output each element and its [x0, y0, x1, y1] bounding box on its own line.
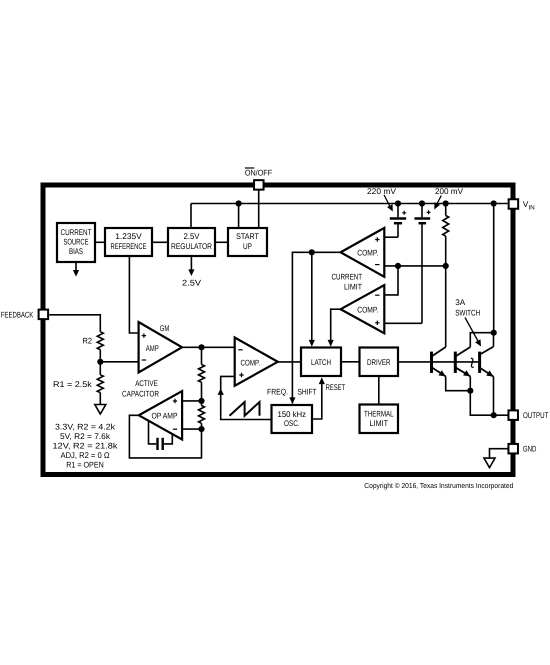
svg-text:LATCH: LATCH	[311, 358, 331, 367]
svg-text:200 mV: 200 mV	[435, 187, 464, 196]
wire switch collector feed	[493, 204, 495, 333]
wire divider to GM amp - input	[100, 361, 138, 363]
svg-text:3A: 3A	[455, 298, 466, 307]
svg-text:GND: GND	[523, 445, 537, 454]
annotation arrow 200 mV	[437, 196, 442, 205]
node junction U3 output/latch drop	[309, 249, 315, 255]
wire GND pin to ground	[490, 449, 508, 458]
svg-text:FREQ.: FREQ.	[267, 388, 288, 397]
svg-text:OP AMP: OP AMP	[152, 411, 178, 420]
block 1.235V REFERENCE	[105, 228, 152, 256]
block DRIVER	[360, 348, 399, 377]
annotation squiggle	[471, 358, 474, 367]
ground below R1	[95, 405, 106, 415]
pin V_IN	[509, 199, 519, 209]
wire op-amp + input	[182, 400, 201, 402]
svg-text:R2: R2	[83, 336, 93, 345]
node junction RB/op-amp - /feedback loop	[198, 426, 204, 432]
node junction rail/offset source B1	[395, 200, 401, 206]
svg-text:ACTIVE: ACTIVE	[135, 379, 158, 388]
wire bias output arrow	[75, 262, 77, 271]
svg-text:CURRENT: CURRENT	[332, 273, 363, 282]
op-amp GM AMP	[139, 322, 182, 373]
block 2.5V REGULATOR	[168, 228, 215, 256]
svg-text:REGULATOR: REGULATOR	[171, 242, 212, 251]
node junction RA/RB/op-amp +	[198, 398, 204, 404]
svg-text:FEEDBACK: FEEDBACK	[1, 311, 34, 320]
resistor R2	[97, 332, 103, 350]
wire emitter bus to output node	[470, 391, 493, 416]
svg-text:ADJ, R2 = 0 Ω: ADJ, R2 = 0 Ω	[61, 451, 110, 460]
resistor R1	[97, 362, 103, 405]
op-amp OP AMP (active capacitor)	[139, 391, 182, 439]
waveform sawtooth	[230, 402, 260, 416]
wire R2 to node	[99, 350, 101, 362]
wire op-amp output feedback loop	[129, 415, 201, 458]
wire U3 output to latch and freq shift	[292, 252, 340, 403]
wire bias chain: current source bias to reference	[95, 241, 105, 243]
resistor Rsense	[443, 204, 449, 266]
resistor compensation RB	[199, 401, 205, 429]
transistor Q1	[432, 266, 471, 391]
offset source B2 (200 mV)	[414, 204, 430, 324]
svg-text:OUTPUT: OUTPUT	[523, 411, 548, 420]
annotation arrow 3A switch	[465, 318, 479, 343]
block 150 kHz OSC.	[272, 405, 313, 433]
wire GM output to PWM comparator - input	[182, 346, 235, 348]
comparator U3 current limit top	[341, 228, 385, 277]
wire output node to pin	[494, 414, 508, 416]
svg-text:COMP.: COMP.	[357, 306, 378, 315]
svg-text:COMP.: COMP.	[241, 359, 261, 368]
svg-text:SOURCE: SOURCE	[64, 238, 89, 247]
wire regulator to start-up	[215, 241, 228, 243]
svg-text:R1 = 2.5k: R1 = 2.5k	[53, 380, 93, 389]
wire latch to driver	[341, 361, 360, 363]
pin GND	[508, 444, 518, 454]
wire U4 + input	[384, 322, 422, 324]
offset source B1 (220 mV)	[390, 204, 406, 238]
capacitor C active	[149, 421, 173, 450]
svg-text:LIMIT: LIMIT	[370, 419, 389, 428]
wire U4 - input	[384, 266, 398, 295]
svg-text:START: START	[236, 232, 259, 241]
arrowhead freq shift into oscillator	[289, 397, 295, 404]
svg-text:COMP.: COMP.	[357, 249, 378, 258]
svg-text:OSC.: OSC.	[284, 419, 300, 428]
wire driver to thermal limit	[378, 376, 380, 405]
block CURRENT SOURCE BIAS	[57, 223, 95, 262]
svg-text:12V, R2 = 21.8k: 12V, R2 = 21.8k	[53, 441, 119, 450]
resistor compensation RA	[199, 347, 205, 401]
node junction collector top	[491, 330, 497, 336]
transistor Q3	[480, 333, 496, 416]
svg-text:3.3V, R2 = 4.2k: 3.3V, R2 = 4.2k	[55, 423, 116, 432]
wire U3 + input	[384, 236, 398, 238]
block LATCH	[301, 348, 341, 377]
svg-text:220 mV: 220 mV	[367, 187, 397, 196]
wire op-amp - input	[182, 428, 201, 430]
svg-text:REFERENCE: REFERENCE	[111, 242, 147, 251]
wire U4 output to latch	[331, 309, 341, 345]
pin FEEDBACK	[39, 310, 49, 320]
svg-text:GM: GM	[160, 324, 170, 333]
wire reference to GM amp + input	[129, 256, 138, 333]
svg-text:2.5V: 2.5V	[182, 278, 202, 287]
svg-text:2.5V: 2.5V	[184, 232, 201, 241]
annotation arrow 220 mV	[384, 195, 390, 208]
wire PWM output to latch	[278, 361, 301, 363]
pin ON/OFF	[254, 180, 263, 190]
wire U3 - input bus	[384, 265, 445, 267]
wire feedback to divider	[49, 315, 100, 332]
svg-text:CURRENT: CURRENT	[61, 228, 92, 237]
svg-text:1.235V: 1.235V	[115, 232, 142, 241]
wire latch set input 1	[311, 252, 313, 345]
node junction rail/switch feed	[491, 200, 497, 206]
ground at GND pin	[484, 458, 495, 468]
svg-text:150 kHz: 150 kHz	[278, 410, 307, 419]
svg-text:LIMIT: LIMIT	[344, 282, 362, 291]
svg-text:THERMAL: THERMAL	[364, 409, 394, 418]
node junction minus bus/Rsense bottom	[443, 263, 449, 269]
node junction divider	[97, 359, 103, 365]
wire ON/OFF to start-up	[258, 190, 260, 228]
IC boundary border	[43, 185, 513, 475]
svg-text:Copyright © 2016, Texas Instru: Copyright © 2016, Texas Instruments Inco…	[364, 481, 513, 490]
svg-text:BIAS: BIAS	[69, 247, 83, 256]
svg-text:UP: UP	[243, 242, 252, 251]
svg-text:RESET: RESET	[326, 383, 346, 392]
svg-text:DRIVER: DRIVER	[367, 358, 391, 367]
node junction minus bus/B2 drop	[395, 263, 401, 269]
transistor Q2	[455, 333, 493, 391]
svg-text:5V, R2 = 7.6k: 5V, R2 = 7.6k	[60, 432, 111, 441]
block THERMAL LIMIT	[360, 405, 399, 434]
wire driver to switch base	[398, 361, 480, 363]
svg-text:ON/OFF: ON/OFF	[245, 168, 272, 177]
wire oscillator reset to latch	[312, 379, 322, 420]
node junction emitter bus	[467, 388, 473, 394]
wire V_IN rail	[191, 204, 508, 229]
svg-text:SWITCH: SWITCH	[455, 308, 480, 317]
svg-text:CAPACITOR: CAPACITOR	[122, 390, 159, 399]
node junction GM output/compensation	[198, 344, 204, 350]
node junction rail/start-up	[236, 200, 242, 206]
block START UP	[228, 228, 267, 256]
node junction output	[491, 412, 497, 418]
svg-text:AMP: AMP	[146, 344, 159, 353]
wire 2.5V output arrow	[190, 256, 192, 271]
svg-text:SHIFT: SHIFT	[298, 388, 317, 397]
node junction rail/offset source B2	[419, 200, 425, 206]
svg-text:R1 = OPEN: R1 = OPEN	[66, 460, 104, 469]
wire reference to regulator	[152, 241, 168, 243]
comparator U2 PWM	[235, 338, 278, 386]
node junction rail/resistor Rsense	[443, 200, 449, 206]
pin OUTPUT	[508, 410, 518, 420]
wire start-up feed	[238, 204, 240, 229]
comparator U4 current limit bottom	[341, 285, 385, 333]
wire PWM + input from oscillator ramp	[221, 376, 272, 419]
